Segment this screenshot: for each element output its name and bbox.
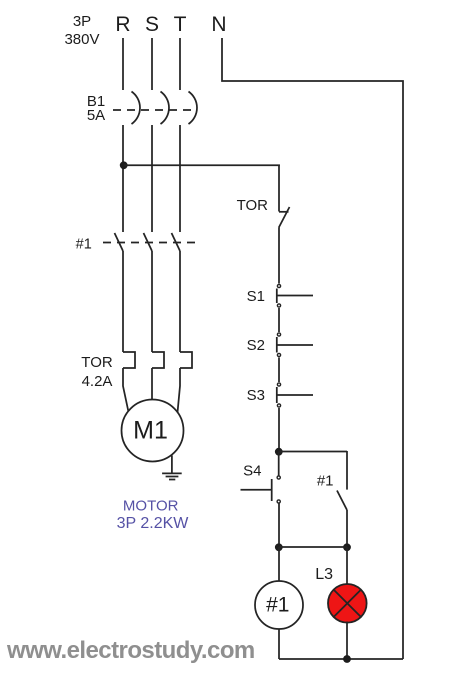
wire T phase mid xyxy=(179,125,181,232)
svg-text:#1: #1 xyxy=(76,237,92,253)
label B1 5A xyxy=(87,93,105,124)
wire aux branch lower xyxy=(346,510,348,547)
overload TOR element R xyxy=(123,352,135,368)
wire node C to lamp xyxy=(346,547,348,586)
breaker B1 pole S xyxy=(161,92,169,125)
svg-text:S2: S2 xyxy=(247,337,265,354)
wire T to motor xyxy=(178,368,181,413)
wire control tap horizontal xyxy=(124,164,280,166)
wire T phase lower xyxy=(179,251,181,352)
wire TOR to S1 xyxy=(278,228,280,284)
wire S to motor xyxy=(151,368,153,400)
svg-text:R: R xyxy=(115,13,130,36)
contactor #1 pole S xyxy=(144,233,153,251)
svg-text:#1: #1 xyxy=(266,594,289,617)
pushbutton S4 xyxy=(241,476,281,503)
wire S1 to S2 xyxy=(278,308,280,332)
svg-text:S3: S3 xyxy=(247,387,265,404)
svg-text:www.electrostudy.com: www.electrostudy.com xyxy=(6,637,255,664)
contactor #1 linkage dashed xyxy=(103,242,196,244)
wire bottom rail xyxy=(279,658,403,660)
wire control rail to TOR contact xyxy=(278,165,280,212)
node D junction bottom xyxy=(343,655,351,663)
wire node B to node C xyxy=(279,546,347,548)
breaker B1 pole R xyxy=(132,92,140,125)
wire T phase top xyxy=(179,38,181,90)
svg-text:S1: S1 xyxy=(247,288,265,305)
overload TOR element T xyxy=(180,352,192,368)
node A junction xyxy=(275,448,283,456)
svg-text:380V: 380V xyxy=(64,31,99,48)
wire N run xyxy=(222,38,403,659)
svg-text:M1: M1 xyxy=(133,417,168,445)
contactor #1 pole T xyxy=(172,233,181,251)
wire S3 to node A xyxy=(278,408,280,451)
wire R phase mid xyxy=(122,125,124,232)
svg-text:4.2A: 4.2A xyxy=(82,373,113,390)
node B junction xyxy=(275,543,283,551)
svg-text:3P 2.2KW: 3P 2.2KW xyxy=(117,515,190,532)
wire R phase lower xyxy=(122,251,124,352)
breaker B1 linkage dashed xyxy=(113,109,197,111)
svg-text:5A: 5A xyxy=(87,107,105,124)
label TOR 4.2A xyxy=(81,354,113,390)
wire node A to aux branch xyxy=(279,451,347,453)
pushbutton S2 xyxy=(277,333,313,357)
wire S phase lower xyxy=(151,251,153,352)
wire lamp to bottom rail xyxy=(346,622,348,660)
contactor #1 pole R xyxy=(115,233,124,251)
pushbutton S3 xyxy=(277,383,313,407)
pushbutton S1 xyxy=(277,284,313,307)
svg-text:S: S xyxy=(145,13,159,36)
breaker B1 pole T xyxy=(189,92,197,125)
svg-text:3P: 3P xyxy=(73,13,91,30)
svg-text:TOR: TOR xyxy=(237,197,269,214)
contact TOR NC xyxy=(279,207,290,228)
motor M1 xyxy=(122,400,184,462)
svg-text:T: T xyxy=(174,13,187,36)
wire S phase top xyxy=(151,38,153,90)
wire R phase top xyxy=(122,38,124,90)
wire R to motor xyxy=(123,368,129,412)
overload TOR element S xyxy=(152,352,164,368)
label MOTOR 3P 2.2KW xyxy=(117,498,190,533)
wire node B to coil xyxy=(278,547,280,581)
svg-text:#1: #1 xyxy=(317,473,334,490)
coil #1 xyxy=(255,581,303,629)
node C junction xyxy=(343,543,351,551)
wire S phase mid xyxy=(151,125,153,232)
wire S2 to S3 xyxy=(278,358,280,383)
wire coil to bottom rail xyxy=(278,629,280,659)
svg-text:L3: L3 xyxy=(315,566,333,583)
ground xyxy=(162,456,182,480)
contact #1 aux NO xyxy=(337,491,347,511)
svg-text:TOR: TOR xyxy=(81,354,113,371)
wire S4 to node B xyxy=(278,504,280,548)
wire node A to S4 xyxy=(278,452,280,477)
svg-text:MOTOR: MOTOR xyxy=(123,498,179,515)
lamp L3 xyxy=(328,584,367,623)
svg-text:S4: S4 xyxy=(243,463,261,480)
svg-text:N: N xyxy=(211,13,226,36)
label 3P 380V xyxy=(64,13,99,48)
node control tap junction xyxy=(120,161,128,169)
wire aux branch upper xyxy=(346,451,348,490)
